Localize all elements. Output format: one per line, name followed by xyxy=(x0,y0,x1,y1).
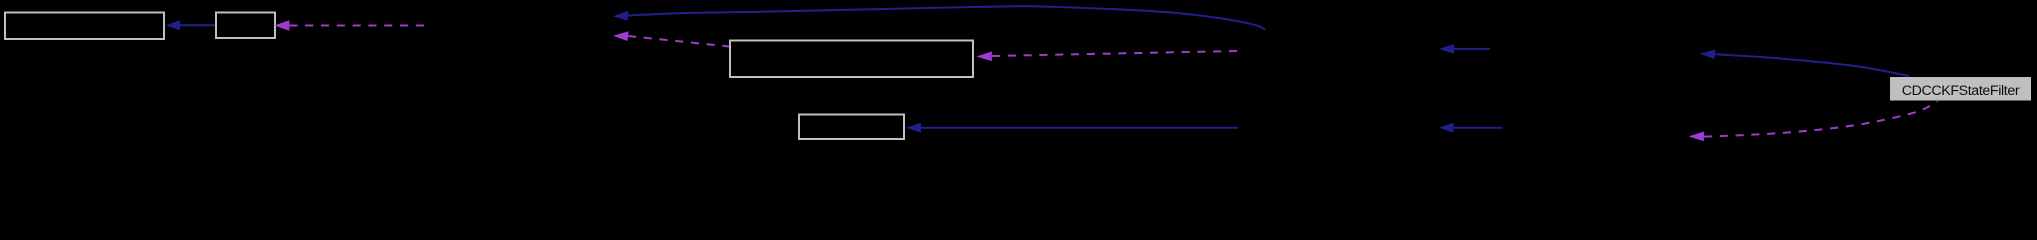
svg-text:CDCCKFStateFilter: CDCCKFStateFilter xyxy=(1902,83,2020,99)
